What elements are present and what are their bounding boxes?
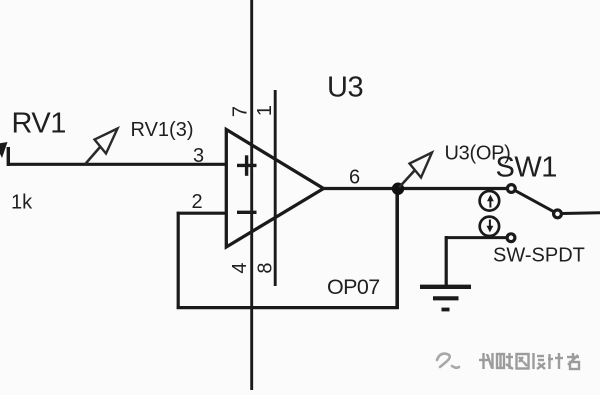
svg-text:1: 1 bbox=[254, 105, 276, 116]
switch common contact circle bbox=[507, 185, 515, 193]
switch throw contact circle bbox=[554, 210, 562, 218]
svg-text:SW-SPDT: SW-SPDT bbox=[493, 245, 585, 267]
feedback wire bottom bbox=[177, 306, 399, 309]
svg-text:3: 3 bbox=[193, 145, 204, 167]
probe arrowhead U3(OP) bbox=[410, 153, 433, 178]
power pin wire 7/4 bbox=[250, 0, 253, 390]
char 设 bbox=[534, 353, 546, 369]
op-amp plus input symbol bbox=[237, 155, 257, 176]
svg-text:4: 4 bbox=[229, 262, 251, 273]
char 网 bbox=[517, 354, 529, 369]
svg-text:1k: 1k bbox=[11, 192, 33, 214]
svg-text:U3: U3 bbox=[327, 72, 363, 104]
feedback wire left vertical bbox=[177, 212, 180, 309]
svg-text:2: 2 bbox=[192, 191, 203, 213]
actuator circle up bbox=[480, 191, 500, 211]
svg-text:8: 8 bbox=[254, 262, 276, 273]
output wire pin 6 bbox=[322, 187, 508, 190]
svg-text:SW1: SW1 bbox=[496, 152, 557, 184]
watermark logo bbox=[437, 354, 459, 368]
ground symbol bbox=[420, 287, 471, 310]
wire: RV1 wiper to op-amp pin 3 bbox=[7, 163, 228, 166]
char 物 bbox=[479, 353, 493, 369]
down arrow inside circle bbox=[489, 220, 491, 228]
switch lever bbox=[515, 191, 554, 212]
power pin wire 1/8 bbox=[274, 90, 277, 286]
probe arrow shaft RV1(3) bbox=[85, 147, 101, 165]
wire down to ground bbox=[445, 236, 448, 287]
switch lower contact circle bbox=[507, 234, 515, 242]
wire from lower contact bbox=[446, 236, 507, 239]
svg-text:OP07: OP07 bbox=[327, 275, 380, 299]
up arrow inside circle bbox=[489, 200, 491, 208]
junction dot bbox=[392, 183, 404, 195]
char 联 bbox=[497, 353, 513, 369]
svg-text:6: 6 bbox=[349, 167, 360, 189]
wire to right edge bbox=[562, 211, 600, 215]
feedback wire right vertical bbox=[395, 189, 399, 310]
wire: RV1 wiper riser bbox=[7, 147, 10, 166]
char 者 bbox=[567, 353, 579, 369]
RV1 wiper arrowhead bbox=[0, 142, 8, 158]
wire: pin 2 input bbox=[177, 212, 228, 215]
svg-text:RV1(3): RV1(3) bbox=[131, 119, 194, 141]
op-amp U3 triangle bbox=[226, 130, 323, 248]
op-amp minus input symbol bbox=[237, 211, 257, 214]
char 计 bbox=[548, 353, 563, 369]
svg-text:7: 7 bbox=[230, 106, 252, 117]
actuator circle down bbox=[480, 217, 499, 236]
probe arrow shaft U3(OP) bbox=[399, 170, 415, 188]
watermark text 物联网设计者 bbox=[479, 353, 579, 369]
probe arrowhead RV1(3) bbox=[95, 129, 118, 154]
svg-text:RV1: RV1 bbox=[12, 108, 66, 140]
